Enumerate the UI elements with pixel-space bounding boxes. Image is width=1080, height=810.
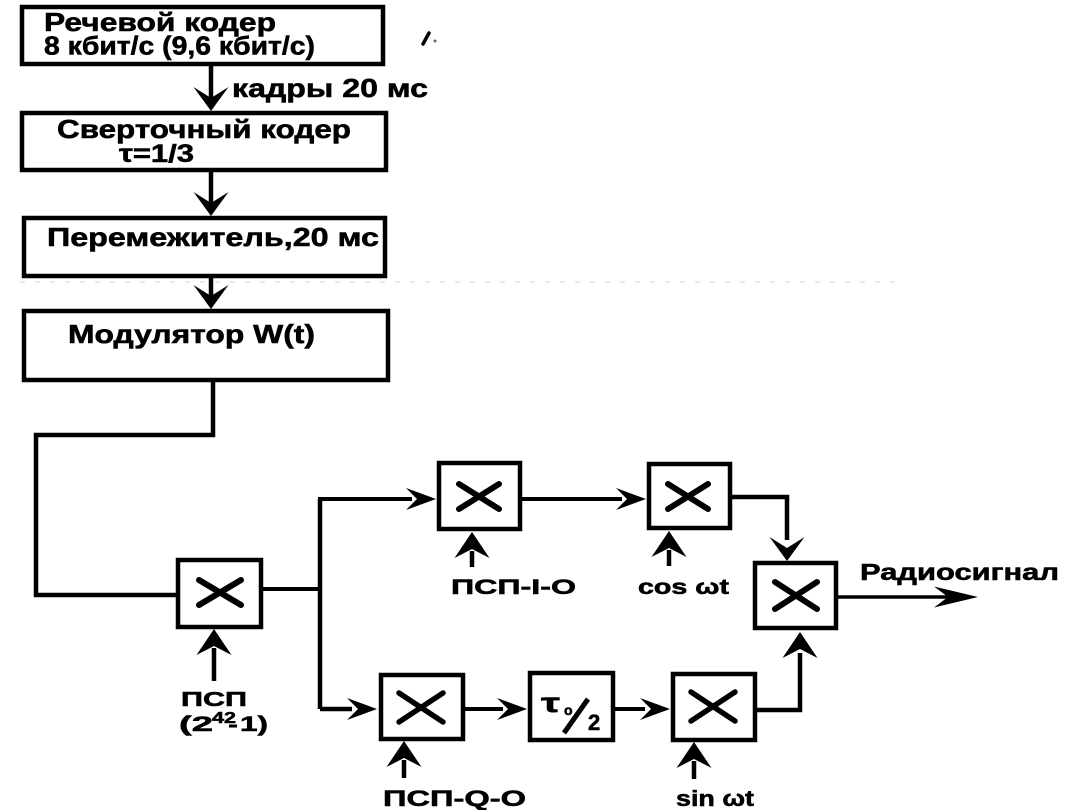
arrow PSP into M1 bottom xyxy=(197,629,232,681)
block B3 "Перемежитель,20 мс" xyxy=(24,218,385,276)
scan noise line xyxy=(20,281,905,283)
wire M3 right-down into M6 top with arrow xyxy=(730,497,805,561)
wire M5 right-up into M6 bottom with arrow xyxy=(755,632,818,710)
svg-text:42: 42 xyxy=(212,710,236,727)
svg-text:8 кбит/с (9,6 кбит/с): 8 кбит/с (9,6 кбит/с) xyxy=(44,31,315,61)
block B1 "Речевой кодер 8 кбит/с (9,6 кбит/с)" xyxy=(22,7,383,64)
label "ПСП" xyxy=(181,689,247,711)
arrow PSP-I-O into M2 bottom xyxy=(455,532,490,567)
multiplier M1 xyxy=(178,560,261,627)
output arrow to the right xyxy=(838,587,978,608)
wire B4 down-left-down to M1 xyxy=(36,380,213,595)
label "ПСП-I-O" xyxy=(451,576,576,599)
wire M2 to M3 with arrow xyxy=(520,488,646,510)
wire junction to M2 with arrow xyxy=(318,488,436,510)
arrow PSP-Q-O into M4 bottom xyxy=(387,741,422,778)
arrow B1 to B2 xyxy=(194,64,229,111)
svg-text:Модулятор W(t): Модулятор W(t) xyxy=(68,319,315,349)
wire junction to M4 with arrow xyxy=(320,698,377,720)
label "кадры 20 мс" xyxy=(232,73,428,103)
wire T box to M5 with arrow xyxy=(613,698,670,720)
svg-text:1): 1) xyxy=(240,713,268,736)
scan artifact mark xyxy=(423,33,437,44)
svg-text:ПСП: ПСП xyxy=(181,689,247,711)
svg-text:кадры 20 мс: кадры 20 мс xyxy=(232,73,428,103)
svg-text:Перемежитель,20 мс: Перемежитель,20 мс xyxy=(47,222,379,252)
label "sin ωt" xyxy=(676,786,755,810)
svg-text:τ=1/3: τ=1/3 xyxy=(119,140,194,168)
arrow cos into M3 bottom xyxy=(652,531,687,566)
wire M1 to junction xyxy=(261,587,320,591)
multiplier M4 xyxy=(381,675,463,739)
block B2 "Сверточный кодер τ=1/3" xyxy=(22,113,386,170)
label "(2^42-1)" xyxy=(179,710,268,736)
svg-text:ПСП-Q-О: ПСП-Q-О xyxy=(383,786,526,810)
arrow B2 to B3 xyxy=(194,170,229,216)
multiplier M3 xyxy=(649,464,730,528)
multiplier M6 (output) xyxy=(755,563,836,628)
wire M4 to T box with arrow xyxy=(463,698,527,720)
svg-text:(2: (2 xyxy=(179,713,213,736)
wire junction vertical xyxy=(318,499,323,709)
svg-text:cos ωt: cos ωt xyxy=(638,576,729,599)
block B4 "Модулятор W(t)" xyxy=(24,311,388,380)
multiplier M2 xyxy=(439,463,520,529)
arrow sin into M5 bottom xyxy=(677,742,712,779)
svg-text:sin ωt: sin ωt xyxy=(676,786,755,810)
svg-text:2: 2 xyxy=(588,710,600,735)
block T "tau0/2" xyxy=(530,673,613,740)
svg-text:Сверточный кодер: Сверточный кодер xyxy=(57,114,351,144)
label "cos ωt" xyxy=(638,576,729,599)
label "ПСП-Q-O" xyxy=(383,786,526,810)
arrow B3 to B4 xyxy=(194,276,229,309)
svg-text:Радиосигнал: Радиосигнал xyxy=(860,559,1059,585)
svg-text:τ: τ xyxy=(541,687,561,718)
label "Радиосигнал" xyxy=(860,559,1059,585)
multiplier M5 xyxy=(673,674,755,740)
svg-text:o: o xyxy=(564,702,573,718)
svg-text:ПСП-I-O: ПСП-I-O xyxy=(451,576,576,599)
